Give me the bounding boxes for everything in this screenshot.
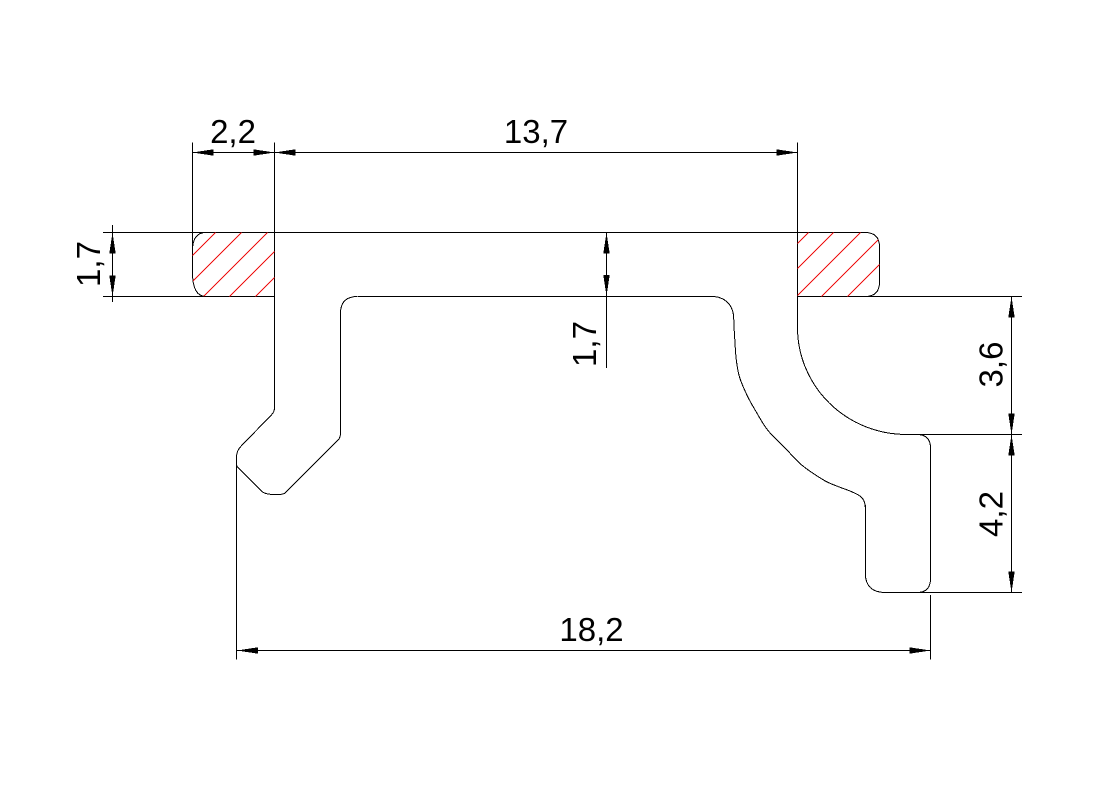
arrow 13,7 right [777,149,798,155]
arrow 4,2 top [1008,435,1014,456]
extension line step (y=434.5) to right [905,434,1022,436]
red hatch left [151,232,320,297]
hatch line L3 [203,232,268,297]
arrow 1,7 middle bottom [603,275,609,296]
dimension line left 1,7 [112,225,114,302]
svg-text:1,7: 1,7 [70,241,107,287]
svg-text:2,2: 2,2 [210,113,256,150]
arrow 3,6 top [1008,297,1014,318]
arrow 1,7 middle top [603,233,609,254]
left finger outline + extension line above through flange [237,143,358,495]
hatch line R3 [796,232,861,297]
dimension texts [70,113,1010,648]
extension line x=192.5 above [192,143,194,248]
arrow 18,2 left [237,647,258,653]
dimension line middle 1,7 [606,233,608,369]
svg-text:3,6: 3,6 [973,342,1010,388]
dimension line right (3,6 / 4,2) [1011,297,1013,593]
dimension line top (2,2 and 13,7) [193,152,798,154]
hatch line L1 [151,232,216,297]
extension line 18,2 right (x=930.5) [930,595,932,660]
profile flange (top bar, rounded ends; bottom edge broken by finger and right wall) [193,233,880,297]
svg-text:1,7: 1,7 [566,321,603,367]
hatch line R5 [847,232,912,297]
arrow 2,2 right [254,149,275,155]
red hatch right [744,232,912,297]
svg-text:4,2: 4,2 [973,491,1010,537]
svg-text:18,2: 18,2 [559,611,623,648]
extension line right of flange bottom edge [865,296,1022,298]
extension line foot bottom to right [885,592,1022,594]
cavity top line (web bottom edge between finger and right wall) [358,296,714,298]
extension line 18,2 left (x=236.5) [236,457,238,660]
hatch line L4 [229,232,294,297]
hatch line R1 [744,232,809,297]
hatch line L2 [177,232,242,297]
arrow 18,2 right [910,647,931,653]
arrow 4,2 bottom [1008,572,1014,593]
hatch line R2 [769,232,834,297]
extension line left of flange top edge [103,232,207,234]
arrows [109,149,1014,653]
svg-text:13,7: 13,7 [504,113,568,150]
arrow 1,7 left bottom [109,276,115,297]
extension line left of flange bottom edge [103,296,207,298]
wall line B + foot + extension above through flange [797,143,930,593]
arrow 3,6 bottom [1008,414,1014,435]
arrow 13,7 left [275,149,296,155]
wall line A (big S-curve from cavity top to foot left edge) [714,297,865,509]
arrow 1,7 left top [109,233,115,254]
arrow 2,2 left [193,149,214,155]
hatch line R4 [821,232,886,297]
hatch line L5 [255,232,320,297]
dimension line bottom 18,2 [237,650,931,652]
